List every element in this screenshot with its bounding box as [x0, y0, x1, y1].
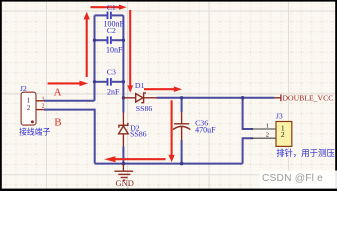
svg-text:2: 2 — [42, 104, 45, 110]
svg-text:10nF: 10nF — [106, 45, 123, 54]
svg-text:C3: C3 — [107, 67, 116, 76]
svg-text:2: 2 — [27, 104, 31, 112]
svg-text:470uF: 470uF — [195, 126, 216, 135]
svg-text:接线端子: 接线端子 — [19, 127, 50, 137]
svg-text:SS86: SS86 — [130, 130, 147, 139]
svg-text:J3: J3 — [276, 112, 283, 121]
svg-text:DOUBLE_VCC: DOUBLE_VCC — [283, 93, 334, 102]
svg-text:GND: GND — [116, 178, 134, 188]
svg-text:排针，用于测压: 排针，用于测压 — [276, 148, 335, 158]
svg-text:C2: C2 — [107, 26, 116, 35]
svg-text:2: 2 — [266, 132, 269, 139]
svg-text:CSDN @Fl e: CSDN @Fl e — [262, 173, 323, 184]
svg-text:C1: C1 — [107, 3, 116, 12]
svg-text:A: A — [54, 86, 62, 98]
svg-text:D1: D1 — [135, 81, 145, 90]
svg-text:SS86: SS86 — [136, 104, 153, 113]
svg-text:2: 2 — [281, 130, 285, 139]
svg-text:B: B — [54, 116, 61, 128]
svg-text:1: 1 — [42, 96, 45, 102]
svg-text:1: 1 — [266, 123, 269, 130]
svg-text:J2: J2 — [20, 84, 27, 93]
svg-text:2nF: 2nF — [107, 87, 120, 96]
